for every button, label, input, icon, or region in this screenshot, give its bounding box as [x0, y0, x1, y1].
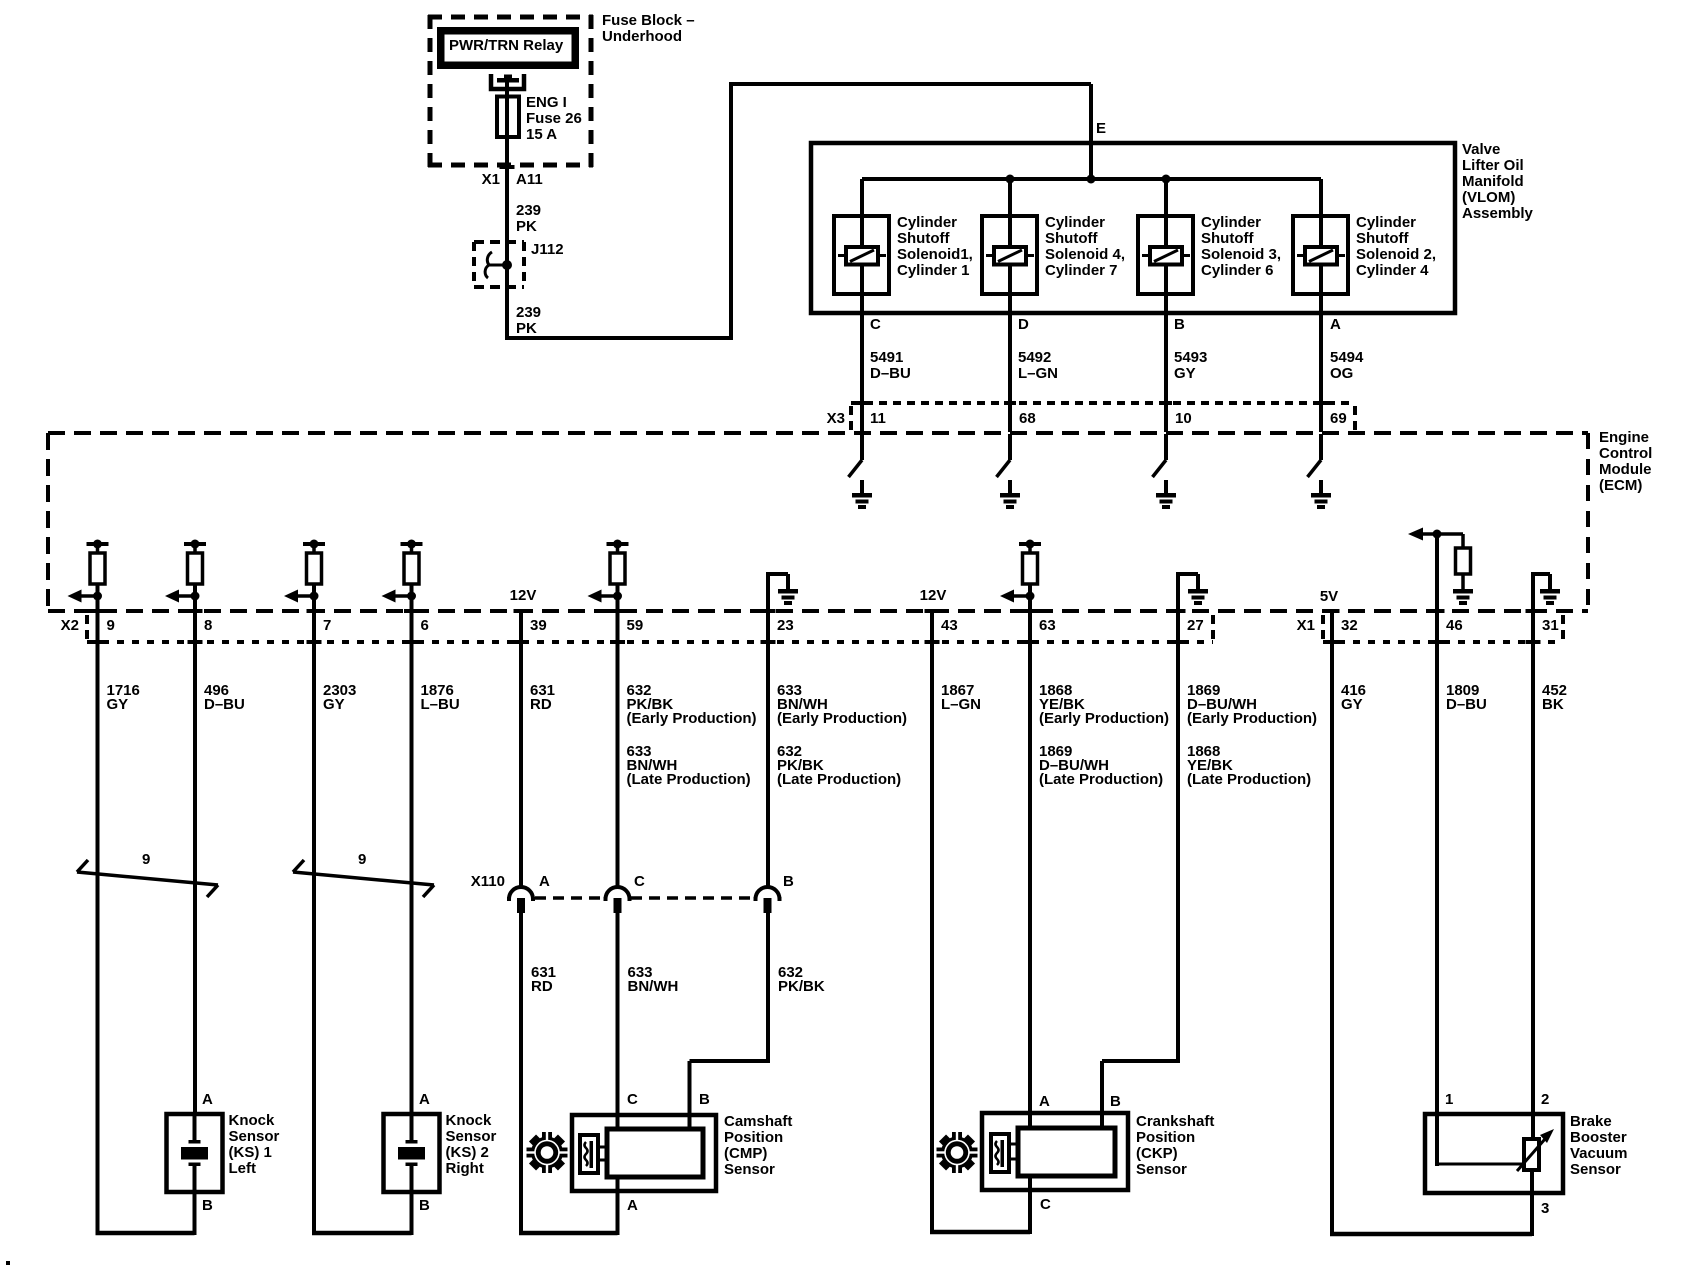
X110 terminal C	[604, 873, 646, 913]
svg-text:5491: 5491	[870, 349, 903, 366]
connector X110 inline	[471, 873, 754, 898]
sensor Camshaft Position CMP box	[572, 1115, 716, 1191]
label ENG I Fuse 26 15 A	[526, 94, 582, 143]
svg-text:C: C	[634, 873, 645, 890]
wire label 631 RD lower	[531, 964, 556, 995]
svg-text:GY: GY	[323, 696, 345, 713]
svg-text:(CMP): (CMP)	[724, 1145, 767, 1162]
solenoid Cylinder Shutoff Solenoid 3 Cylinder 6	[1138, 214, 1281, 294]
label Knock Sensor (KS) 1 Left	[229, 1112, 280, 1177]
svg-text:239: 239	[516, 304, 541, 321]
svg-text:PK/BK: PK/BK	[778, 978, 825, 995]
svg-text:15 A: 15 A	[526, 126, 557, 143]
svg-text:46: 46	[1446, 617, 1463, 634]
splice J112	[474, 242, 524, 287]
wire pin 7 to KS2 low ref	[312, 611, 412, 1235]
crossover twist 9 KS1 pair	[77, 851, 218, 897]
CMP hall element	[580, 1135, 608, 1173]
CMP terminal labels C B A	[627, 1091, 710, 1214]
svg-text:32: 32	[1341, 617, 1358, 634]
svg-text:Shutoff: Shutoff	[1201, 230, 1254, 247]
wire fuse to J112	[505, 82, 509, 340]
svg-text:Camshaft: Camshaft	[724, 1113, 792, 1130]
svg-text:(Early Production): (Early Production)	[1039, 710, 1169, 727]
svg-text:C: C	[627, 1091, 638, 1108]
svg-text:B: B	[419, 1197, 430, 1214]
svg-text:Fuse 26: Fuse 26	[526, 110, 582, 127]
svg-text:Underhood: Underhood	[602, 28, 682, 45]
svg-text:7: 7	[323, 617, 331, 634]
svg-text:Cylinder: Cylinder	[1045, 214, 1105, 231]
ECM input resistor pin 6	[382, 540, 423, 614]
svg-text:59: 59	[627, 617, 644, 634]
svg-text:Sensor: Sensor	[724, 1161, 775, 1178]
wire label 452 BK	[1542, 682, 1567, 713]
X110 terminal A	[507, 873, 550, 913]
svg-text:Solenoid 3,: Solenoid 3,	[1201, 246, 1281, 263]
solenoid Cylinder Shutoff Solenoid 4 Cylinder 7	[982, 214, 1125, 294]
svg-text:8: 8	[204, 617, 212, 634]
wire label 496 D-BU	[204, 682, 245, 713]
svg-text:6: 6	[421, 617, 429, 634]
svg-text:Position: Position	[724, 1129, 783, 1146]
svg-text:5492: 5492	[1018, 349, 1051, 366]
wire label 5494 OG	[1330, 349, 1364, 382]
wire pin 6 to KS2 signal	[410, 611, 414, 1114]
brake sensor terminal labels 1 2 3	[1445, 1091, 1549, 1217]
svg-text:5V: 5V	[1320, 588, 1338, 605]
svg-text:Right: Right	[446, 1160, 484, 1177]
svg-text:11: 11	[870, 410, 886, 427]
svg-text:J112: J112	[531, 241, 564, 258]
svg-text:X110: X110	[471, 873, 505, 890]
wire label 1867 L-GN	[941, 682, 981, 713]
CKP reluctor gear icon	[935, 1131, 979, 1175]
svg-text:BN/WH: BN/WH	[628, 978, 679, 995]
wire label 239 PK upper	[516, 202, 541, 235]
brake sensor potentiometer	[1517, 1129, 1554, 1236]
KS1 terminal labels A B	[202, 1091, 213, 1214]
svg-text:RD: RD	[531, 978, 553, 995]
svg-text:69: 69	[1330, 410, 1347, 427]
KS2 piezo element	[398, 1114, 425, 1235]
wire pin 8 to KS1 signal	[193, 611, 197, 1114]
wire label 632 PK/BK early 633 BN/WH late	[627, 682, 757, 788]
connector X3 row	[827, 401, 1357, 430]
driver switch to ground pin 69	[1308, 434, 1332, 509]
svg-text:PWR/TRN Relay: PWR/TRN Relay	[449, 37, 564, 54]
wire pin 31 to brake sensor 2	[1531, 574, 1535, 1141]
ECM ground pin 23	[766, 574, 798, 613]
svg-text:C: C	[1040, 1196, 1051, 1213]
svg-text:B: B	[783, 873, 794, 890]
svg-text:D: D	[1018, 316, 1029, 333]
svg-text:10: 10	[1175, 410, 1192, 427]
svg-text:Cylinder 1: Cylinder 1	[897, 262, 970, 279]
connector X2 row	[61, 609, 1215, 644]
svg-text:Engine: Engine	[1599, 429, 1649, 446]
svg-text:(VLOM): (VLOM)	[1462, 189, 1515, 206]
svg-text:5493: 5493	[1174, 349, 1207, 366]
svg-text:C: C	[870, 316, 881, 333]
svg-text:BK: BK	[1542, 696, 1564, 713]
svg-text:Shutoff: Shutoff	[897, 230, 950, 247]
svg-text:OG: OG	[1330, 365, 1353, 382]
svg-text:Cylinder 4: Cylinder 4	[1356, 262, 1429, 279]
label Crankshaft Position (CKP) Sensor	[1136, 1113, 1214, 1178]
wire label 633 BN/WH lower	[628, 964, 679, 995]
fuse F26 ENG I 15A	[497, 97, 519, 138]
driver switch to ground pin 11	[849, 434, 873, 509]
svg-text:39: 39	[530, 617, 547, 634]
svg-text:X1: X1	[482, 171, 500, 188]
svg-text:E: E	[1096, 120, 1106, 137]
svg-text:D–BU: D–BU	[1446, 696, 1487, 713]
wire label 1869 D-BU/WH early 1868 YE/BK late	[1187, 682, 1317, 788]
label Brake Booster Vacuum Sensor	[1570, 1113, 1628, 1178]
svg-text:Shutoff: Shutoff	[1045, 230, 1098, 247]
svg-text:(Early Production): (Early Production)	[777, 710, 907, 727]
driver switch to ground pin 10	[1153, 434, 1177, 509]
svg-text:Cylinder: Cylinder	[897, 214, 957, 231]
ECM Engine Control Module dashed box	[48, 433, 1588, 611]
connector X1 row	[1297, 609, 1565, 644]
solenoid Cylinder Shutoff Solenoid1 Cylinder 1	[834, 214, 973, 294]
svg-text:A: A	[1330, 316, 1341, 333]
X110 terminal B	[754, 873, 795, 913]
wire X110 B to CMP 12V	[690, 913, 769, 1131]
svg-text:(Early Production): (Early Production)	[627, 710, 757, 727]
wire X110 A to CMP low ref	[519, 913, 618, 1235]
label J112	[531, 241, 564, 258]
wire solenoid S2 feed	[1319, 179, 1323, 432]
wire pin 39 to X110 A	[519, 611, 523, 888]
svg-text:A: A	[419, 1091, 430, 1108]
crossover twist 9 KS2 pair	[293, 851, 434, 897]
svg-text:Control: Control	[1599, 445, 1652, 462]
wire pin 23 to X110 B	[766, 611, 770, 888]
sensor Crankshaft Position CKP box	[982, 1113, 1128, 1190]
svg-text:43: 43	[941, 617, 958, 634]
relay output terminal clip	[491, 74, 524, 89]
svg-text:A: A	[539, 873, 550, 890]
svg-text:1: 1	[1445, 1091, 1453, 1108]
svg-text:5494: 5494	[1330, 349, 1364, 366]
svg-text:9: 9	[358, 851, 366, 868]
svg-text:ENG I: ENG I	[526, 94, 567, 111]
svg-text:(Late Production): (Late Production)	[1039, 771, 1163, 788]
svg-text:PK: PK	[516, 320, 537, 337]
svg-text:(CKP): (CKP)	[1136, 1145, 1178, 1162]
ECM input resistor pin 59	[588, 540, 629, 614]
svg-text:GY: GY	[1341, 696, 1363, 713]
svg-text:GY: GY	[107, 696, 129, 713]
wire label 631 RD	[530, 682, 555, 713]
sensor Knock Sensor KS1 Left box	[167, 1114, 223, 1192]
svg-text:A11: A11	[516, 171, 543, 188]
svg-text:Assembly: Assembly	[1462, 205, 1534, 222]
KS1 piezo element	[181, 1114, 208, 1235]
label Valve Lifter Oil Manifold (VLOM) Assembly	[1462, 141, 1534, 222]
relay PWR/TRN Relay	[437, 27, 579, 69]
svg-text:GY: GY	[1174, 365, 1196, 382]
fuse block dashed box	[428, 15, 593, 167]
VLOM terminal letters C D B A	[870, 316, 1341, 333]
svg-text:Vacuum: Vacuum	[1570, 1145, 1628, 1162]
svg-text:2: 2	[1541, 1091, 1549, 1108]
wire label 239 PK lower	[516, 304, 541, 337]
5V supply tick pin 32	[1320, 588, 1340, 613]
svg-text:(Late Production): (Late Production)	[1187, 771, 1311, 788]
svg-text:12V: 12V	[920, 587, 947, 604]
svg-text:Solenoid 4,: Solenoid 4,	[1045, 246, 1125, 263]
wire pin 32 5V to brake sensor 3	[1330, 611, 1532, 1236]
svg-text:A: A	[1039, 1093, 1050, 1110]
svg-text:Sensor: Sensor	[446, 1128, 497, 1145]
node junction dots on bus	[1006, 175, 1171, 184]
svg-text:B: B	[1110, 1093, 1121, 1110]
svg-text:Booster: Booster	[1570, 1129, 1627, 1146]
wire J112 to VLOM feed E	[507, 82, 1091, 340]
wire label 1809 D-BU	[1446, 682, 1487, 713]
svg-text:(Early Production): (Early Production)	[1187, 710, 1317, 727]
svg-text:Solenoid1,: Solenoid1,	[897, 246, 973, 263]
svg-text:68: 68	[1019, 410, 1036, 427]
svg-text:23: 23	[777, 617, 794, 634]
wire pin 27 to CKP B	[1102, 611, 1178, 1130]
wire label 632 PK/BK lower	[778, 964, 825, 995]
svg-text:Sensor: Sensor	[1136, 1161, 1187, 1178]
label Fuse Block - Underhood	[602, 12, 695, 45]
sensor Knock Sensor KS2 Right box	[384, 1114, 440, 1192]
ECM input resistor pin 8	[165, 540, 206, 614]
svg-text:Cylinder: Cylinder	[1356, 214, 1416, 231]
svg-text:Fuse Block –: Fuse Block –	[602, 12, 695, 29]
svg-text:Cylinder 7: Cylinder 7	[1045, 262, 1118, 279]
ECM ground pin 27	[1176, 574, 1208, 613]
wire solenoid S3 feed	[1164, 179, 1168, 432]
svg-text:31: 31	[1542, 617, 1559, 634]
svg-text:Position: Position	[1136, 1129, 1195, 1146]
svg-text:RD: RD	[530, 696, 552, 713]
svg-text:Left: Left	[229, 1160, 257, 1177]
wire solenoid S1 feed	[860, 179, 864, 432]
label Engine Control Module (ECM)	[1599, 429, 1652, 494]
VLOM assembly box	[811, 143, 1455, 313]
svg-text:9: 9	[107, 617, 115, 634]
wire label 2303 GY	[323, 682, 356, 713]
svg-text:Valve: Valve	[1462, 141, 1500, 158]
svg-text:Solenoid 2,: Solenoid 2,	[1356, 246, 1436, 263]
wire label 5493 GY	[1174, 349, 1207, 382]
wire pin 9 to KS1 low ref	[96, 611, 195, 1235]
svg-text:PK: PK	[516, 218, 537, 235]
wire solenoid S4 feed	[1008, 179, 1012, 432]
wire X110 C to CMP signal	[616, 913, 620, 1131]
svg-text:Manifold: Manifold	[1462, 173, 1524, 190]
wire label 1716 GY	[107, 682, 140, 713]
svg-text:Knock: Knock	[446, 1112, 493, 1129]
wire label 1868 YE/BK early 1869 D-BU/WH late	[1039, 682, 1169, 788]
ECM input resistor pin 7	[284, 540, 325, 614]
page period mark	[6, 1261, 10, 1265]
svg-text:(KS) 1: (KS) 1	[229, 1144, 272, 1161]
svg-text:27: 27	[1187, 617, 1204, 634]
5V pull-up network pin 46	[1408, 528, 1473, 606]
wire pin 43 to CKP C	[930, 611, 1030, 1234]
12V supply tick pin 43	[920, 587, 947, 613]
svg-text:Brake: Brake	[1570, 1113, 1612, 1130]
svg-text:A: A	[202, 1091, 213, 1108]
svg-text:(Late Production): (Late Production)	[777, 771, 901, 788]
svg-text:(Late Production): (Late Production)	[627, 771, 751, 788]
svg-text:B: B	[699, 1091, 710, 1108]
svg-text:Sensor: Sensor	[229, 1128, 280, 1145]
svg-text:(ECM): (ECM)	[1599, 477, 1642, 494]
wire label 633 BN/WH early 632 PK/BK late	[777, 682, 907, 788]
svg-text:L–GN: L–GN	[941, 696, 981, 713]
svg-text:Module: Module	[1599, 461, 1652, 478]
svg-text:X2: X2	[61, 617, 79, 634]
svg-text:Knock: Knock	[229, 1112, 276, 1129]
solenoid Cylinder Shutoff Solenoid 2 Cylinder 4	[1293, 214, 1436, 294]
wire label 5492 L-GN	[1018, 349, 1058, 382]
svg-text:B: B	[1174, 316, 1185, 333]
label Camshaft Position (CMP) Sensor	[724, 1113, 792, 1178]
ECM input resistor pin 9	[68, 540, 109, 614]
wire label 416 GY	[1341, 682, 1366, 713]
ECM input resistor pin 63	[1000, 540, 1041, 614]
svg-text:(KS) 2: (KS) 2	[446, 1144, 489, 1161]
svg-text:12V: 12V	[510, 587, 537, 604]
svg-text:Cylinder: Cylinder	[1201, 214, 1261, 231]
driver switch to ground pin 68	[997, 434, 1021, 509]
svg-text:Sensor: Sensor	[1570, 1161, 1621, 1178]
VLOM internal supply bus	[862, 177, 1321, 181]
wire pin 63 to CKP A	[1028, 611, 1032, 1130]
ECM ground pin 31	[1531, 574, 1560, 605]
CKP hall element	[991, 1134, 1019, 1172]
svg-text:Cylinder 6: Cylinder 6	[1201, 262, 1274, 279]
svg-text:D–BU: D–BU	[204, 696, 245, 713]
CKP terminal labels A B C	[1039, 1093, 1121, 1213]
brake sensor wiper feed wire	[1437, 1163, 1522, 1166]
svg-text:D–BU: D–BU	[870, 365, 911, 382]
svg-text:B: B	[202, 1197, 213, 1214]
svg-text:X1: X1	[1297, 617, 1315, 634]
svg-text:X3: X3	[827, 410, 845, 427]
svg-text:Lifter Oil: Lifter Oil	[1462, 157, 1524, 174]
label E	[1096, 120, 1106, 137]
svg-text:239: 239	[516, 202, 541, 219]
sensor Brake Booster Vacuum box	[1425, 1114, 1563, 1193]
wire pin 59 to X110 C	[616, 611, 620, 888]
svg-text:L–BU: L–BU	[421, 696, 460, 713]
svg-text:Shutoff: Shutoff	[1356, 230, 1409, 247]
svg-text:A: A	[627, 1197, 638, 1214]
svg-text:3: 3	[1541, 1200, 1549, 1217]
wire label 5491 D-BU	[870, 349, 911, 382]
svg-text:63: 63	[1039, 617, 1056, 634]
KS2 terminal labels A B	[419, 1091, 430, 1214]
wire label 1876 L-BU	[421, 682, 460, 713]
CMP body rect	[607, 1129, 703, 1235]
svg-text:L–GN: L–GN	[1018, 365, 1058, 382]
CKP body rect	[1018, 1128, 1115, 1234]
wire pin 46 to brake sensor 1	[1435, 534, 1439, 1166]
label Knock Sensor (KS) 2 Right	[446, 1112, 497, 1177]
svg-text:Crankshaft: Crankshaft	[1136, 1113, 1214, 1130]
svg-text:9: 9	[142, 851, 150, 868]
CMP reluctor gear icon	[525, 1131, 569, 1175]
12V supply tick pin 39	[510, 587, 537, 613]
connector X1 A11 labels and tick	[482, 165, 543, 188]
